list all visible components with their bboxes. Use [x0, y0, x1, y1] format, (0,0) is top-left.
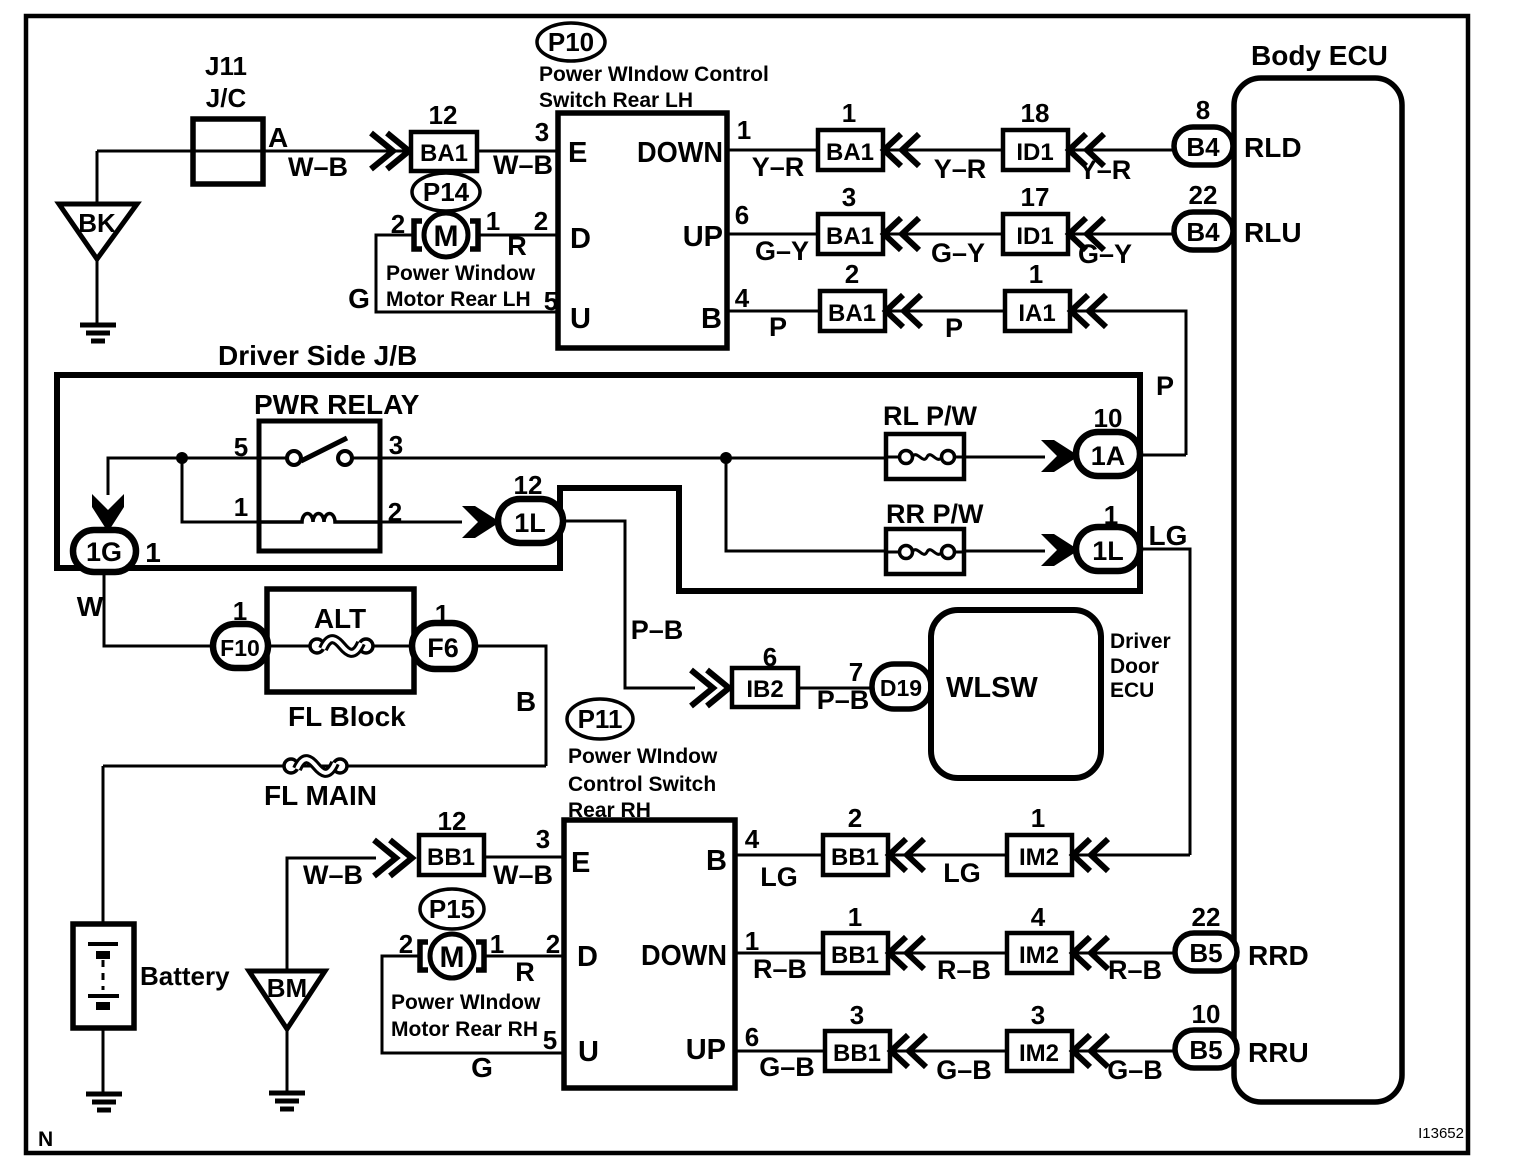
wire relay pin1: [182, 458, 259, 522]
svg-text:22: 22: [1192, 902, 1221, 932]
fusible link FL MAIN: [284, 759, 347, 773]
svg-text:E: E: [571, 847, 590, 879]
svg-text:W–B: W–B: [288, 152, 348, 182]
svg-text:12: 12: [438, 806, 467, 836]
wire DOWN row Y-R: [727, 149, 1174, 152]
svg-text:B: B: [701, 303, 722, 335]
svg-text:P–B: P–B: [631, 615, 684, 645]
wire to RR fuse: [726, 458, 886, 551]
wire LG riser: [1140, 549, 1190, 855]
svg-text:B4: B4: [1186, 217, 1220, 247]
svg-text:1: 1: [737, 115, 751, 145]
wire battery to ground: [102, 1028, 105, 1093]
svg-text:ALT: ALT: [314, 603, 366, 634]
svg-text:RLD: RLD: [1244, 132, 1302, 163]
svg-text:1: 1: [1031, 803, 1045, 833]
svg-text:U: U: [578, 1036, 599, 1068]
svg-text:B5: B5: [1189, 1035, 1222, 1065]
chevron into BA1: [371, 133, 409, 169]
svg-text:BK: BK: [78, 208, 116, 238]
wire B row P to body ECU: [727, 311, 1186, 455]
svg-text:D19: D19: [880, 675, 922, 701]
svg-text:1A: 1A: [1091, 441, 1126, 471]
svg-text:LG: LG: [760, 862, 798, 892]
svg-text:W: W: [77, 591, 104, 622]
svg-text:6: 6: [735, 200, 749, 230]
svg-text:10: 10: [1094, 403, 1123, 433]
battery: [73, 924, 134, 1028]
svg-text:PWR RELAY: PWR RELAY: [254, 389, 420, 420]
switch box P11 Power Window Control Switch Rear RH: [564, 820, 735, 1088]
chevron: [1073, 937, 1108, 969]
svg-text:3: 3: [536, 824, 550, 854]
arrow into 1L: [1041, 534, 1079, 566]
svg-text:2: 2: [845, 259, 859, 289]
svg-text:RR P/W: RR P/W: [886, 499, 984, 529]
svg-text:G–Y: G–Y: [1078, 239, 1132, 269]
ALT fusible link: [268, 645, 412, 648]
connector D19: [872, 664, 931, 709]
svg-text:Power WIndow Control: Power WIndow Control: [539, 63, 769, 86]
svg-text:Power Window: Power Window: [386, 262, 536, 285]
svg-text:BA1: BA1: [420, 140, 468, 167]
svg-text:17: 17: [1021, 182, 1050, 212]
svg-text:P15: P15: [429, 894, 475, 924]
svg-text:1: 1: [145, 537, 161, 568]
svg-text:Door: Door: [1110, 655, 1159, 678]
svg-text:5: 5: [234, 432, 248, 462]
wire UP row G-Y: [727, 233, 1174, 236]
svg-text:1: 1: [745, 926, 759, 956]
svg-text:UP: UP: [686, 1034, 726, 1066]
wire BM to ground: [286, 1029, 289, 1092]
wire BB1 to E pin: [484, 856, 564, 859]
svg-text:R: R: [507, 231, 527, 261]
Driver Door ECU box WLSW: [931, 610, 1101, 778]
svg-text:RLU: RLU: [1244, 217, 1302, 248]
svg-text:18: 18: [1021, 98, 1050, 128]
svg-text:DOWN: DOWN: [641, 940, 727, 972]
svg-text:12: 12: [514, 470, 543, 500]
svg-text:22: 22: [1189, 180, 1218, 210]
chevron: [1073, 1035, 1108, 1067]
svg-text:1L: 1L: [514, 508, 546, 538]
chevron: [1069, 218, 1104, 250]
chevron: [891, 1035, 926, 1067]
svg-text:BM: BM: [267, 973, 307, 1003]
svg-text:IA1: IA1: [1018, 300, 1055, 327]
ground symbol battery: [86, 1094, 122, 1110]
svg-text:IB2: IB2: [746, 676, 783, 703]
svg-text:Power WIndow: Power WIndow: [391, 991, 541, 1014]
svg-text:IM2: IM2: [1019, 844, 1059, 871]
svg-text:FL Block: FL Block: [288, 701, 406, 732]
svg-text:P10: P10: [548, 27, 594, 57]
svg-text:1: 1: [1029, 259, 1043, 289]
connector P10 label: [537, 23, 605, 61]
chevron: [889, 937, 924, 969]
svg-text:Driver: Driver: [1110, 630, 1171, 653]
svg-text:ID1: ID1: [1016, 223, 1053, 250]
svg-text:W–B: W–B: [303, 860, 363, 890]
svg-text:LG: LG: [1149, 520, 1188, 551]
svg-text:12: 12: [429, 100, 458, 130]
svg-text:6: 6: [745, 1022, 759, 1052]
svg-text:U: U: [570, 303, 591, 335]
svg-text:B4: B4: [1186, 132, 1220, 162]
svg-text:BA1: BA1: [826, 139, 874, 166]
chevron: [886, 295, 921, 327]
svg-text:1: 1: [486, 206, 500, 236]
svg-text:WLSW: WLSW: [946, 672, 1038, 704]
svg-text:2: 2: [534, 206, 548, 236]
motor M power window motor rear RH: [420, 934, 484, 978]
svg-text:RRU: RRU: [1248, 1037, 1309, 1068]
svg-text:B5: B5: [1189, 938, 1222, 968]
connector 1G pin 1: [73, 530, 136, 572]
svg-text:DOWN: DOWN: [637, 137, 723, 169]
junction: [176, 452, 188, 464]
svg-text:2: 2: [399, 929, 413, 959]
svg-text:P11: P11: [578, 704, 623, 734]
svg-text:A: A: [268, 122, 288, 153]
svg-text:1: 1: [842, 98, 856, 128]
svg-text:I13652: I13652: [1418, 1125, 1464, 1142]
svg-text:Power WIndow: Power WIndow: [568, 745, 718, 768]
chevron: [884, 218, 919, 250]
connector P15 label: [420, 889, 484, 929]
wire 1A to P riser: [1140, 454, 1186, 457]
Driver Side J/B box outline: [57, 375, 1140, 591]
svg-text:Body ECU: Body ECU: [1251, 40, 1388, 71]
wire battery riser: [102, 766, 105, 924]
chevron into IB2: [691, 670, 729, 706]
svg-text:3: 3: [389, 430, 403, 460]
ground symbol BM: [269, 1093, 305, 1109]
svg-text:4: 4: [745, 824, 760, 854]
svg-text:E: E: [568, 137, 587, 169]
svg-text:3: 3: [842, 182, 856, 212]
svg-text:LG: LG: [943, 858, 981, 888]
svg-text:P14: P14: [423, 177, 470, 207]
svg-text:IM2: IM2: [1019, 942, 1059, 969]
ground triangle BK: [59, 204, 137, 259]
svg-text:Switch Rear LH: Switch Rear LH: [539, 89, 693, 112]
svg-text:G–Y: G–Y: [931, 238, 985, 268]
svg-text:3: 3: [850, 1000, 864, 1030]
svg-text:J/C: J/C: [206, 83, 247, 113]
svg-text:G–B: G–B: [759, 1052, 815, 1082]
svg-text:RL P/W: RL P/W: [883, 401, 978, 431]
chevron: [1073, 839, 1108, 871]
svg-text:G–B: G–B: [1107, 1055, 1163, 1085]
wire to 1L: [964, 550, 1045, 553]
arrow into 1L: [462, 506, 500, 538]
connector P14 label: [412, 173, 480, 211]
svg-text:P: P: [1156, 371, 1174, 401]
svg-text:10: 10: [1192, 999, 1221, 1029]
svg-text:F10: F10: [220, 635, 260, 661]
chevron into BB1: [374, 840, 412, 876]
switch box P10 Power Window Control Switch Rear LH: [558, 113, 727, 348]
svg-text:RRD: RRD: [1248, 940, 1309, 971]
svg-text:W–B: W–B: [493, 150, 553, 180]
svg-text:N: N: [38, 1128, 53, 1151]
svg-text:ID1: ID1: [1016, 139, 1053, 166]
wire FL MAIN row: [103, 765, 546, 768]
svg-text:P: P: [769, 312, 787, 342]
wire UP row G-B: [735, 1050, 1175, 1053]
svg-text:G: G: [348, 283, 370, 314]
svg-text:3: 3: [1031, 1000, 1045, 1030]
svg-text:Motor Rear RH: Motor Rear RH: [391, 1018, 538, 1041]
svg-text:R: R: [515, 957, 535, 987]
svg-text:J11: J11: [205, 51, 247, 81]
wire: ground to J/C to BA1 row (W-B): [97, 151, 558, 204]
svg-text:4: 4: [735, 283, 750, 313]
arrow into 1G: [92, 494, 124, 532]
svg-text:W–B: W–B: [493, 860, 553, 890]
ground symbol BK: [96, 259, 99, 325]
svg-text:2: 2: [388, 497, 402, 527]
svg-text:BB1: BB1: [427, 844, 475, 871]
svg-text:8: 8: [1196, 95, 1210, 125]
svg-text:BA1: BA1: [826, 223, 874, 250]
svg-text:Y–R: Y–R: [934, 154, 987, 184]
relay contact: [259, 457, 380, 460]
svg-text:R–B: R–B: [937, 955, 991, 985]
svg-text:BB1: BB1: [831, 942, 879, 969]
svg-text:P–B: P–B: [817, 685, 870, 715]
wire IB2 to D19: [798, 687, 872, 690]
svg-text:P: P: [945, 313, 963, 343]
svg-text:Driver Side J/B: Driver Side J/B: [218, 340, 417, 371]
chevron: [1071, 295, 1106, 327]
svg-text:3: 3: [535, 117, 549, 147]
svg-text:2: 2: [848, 803, 862, 833]
svg-text:BA1: BA1: [828, 300, 876, 327]
wire relay pin2 to 1L: [380, 521, 462, 524]
svg-text:1: 1: [234, 492, 248, 522]
svg-text:1G: 1G: [86, 537, 122, 567]
svg-text:G–B: G–B: [936, 1055, 992, 1085]
svg-text:Battery: Battery: [140, 961, 230, 991]
svg-text:Y–R: Y–R: [1079, 155, 1132, 185]
svg-text:1L: 1L: [1092, 536, 1124, 566]
arrow into 1A: [1041, 440, 1079, 472]
chevron: [1069, 134, 1104, 166]
wire relay pin3 to RL fuse: [380, 457, 886, 460]
wire relay pin5 to 1G: [108, 458, 259, 495]
junction: [720, 452, 732, 464]
svg-text:D: D: [570, 223, 591, 255]
svg-text:UP: UP: [683, 221, 723, 253]
svg-text:D: D: [577, 941, 598, 973]
chevron: [889, 839, 924, 871]
svg-text:G–Y: G–Y: [755, 236, 809, 266]
svg-text:R–B: R–B: [1108, 955, 1162, 985]
svg-text:Motor Rear LH: Motor Rear LH: [386, 288, 531, 311]
motor M power window motor rear LH: [414, 213, 478, 257]
wire 1G to F10 (W): [104, 572, 213, 646]
svg-text:4: 4: [1031, 902, 1046, 932]
svg-text:FL MAIN: FL MAIN: [264, 780, 377, 811]
wire P-B from 1L to IB2: [563, 521, 695, 688]
chevron: [884, 134, 919, 166]
svg-text:7: 7: [849, 657, 863, 687]
wire B row LG: [735, 854, 1190, 857]
wire to 1A: [964, 456, 1045, 459]
svg-text:2: 2: [391, 209, 405, 239]
connector P11 label: [567, 699, 633, 739]
svg-text:BB1: BB1: [831, 844, 879, 871]
wire DOWN row R-B: [735, 952, 1175, 955]
FL Block box ALT: [267, 589, 414, 692]
wire: motor to D pin: [376, 235, 558, 312]
svg-text:5: 5: [543, 1025, 557, 1055]
svg-text:F6: F6: [427, 633, 459, 663]
svg-text:Y–R: Y–R: [752, 152, 805, 182]
svg-text:R–B: R–B: [753, 954, 807, 984]
svg-text:1: 1: [848, 902, 862, 932]
svg-text:G: G: [471, 1052, 493, 1083]
svg-text:IM2: IM2: [1019, 1040, 1059, 1067]
svg-text:1: 1: [490, 929, 504, 959]
relay PWR RELAY box: [259, 421, 380, 551]
wire BM riser and W-B row: [287, 858, 376, 971]
relay coil wire: [259, 514, 380, 523]
svg-text:2: 2: [546, 929, 560, 959]
svg-text:B: B: [706, 845, 727, 877]
wire F6 to FL MAIN (B): [475, 646, 546, 766]
svg-text:ECU: ECU: [1110, 679, 1154, 702]
ground triangle BM: [249, 971, 325, 1029]
svg-text:Control Switch: Control Switch: [568, 773, 716, 796]
svg-text:B: B: [516, 686, 536, 717]
svg-text:BB1: BB1: [833, 1040, 881, 1067]
wire motor rear RH loop: [382, 956, 564, 1053]
